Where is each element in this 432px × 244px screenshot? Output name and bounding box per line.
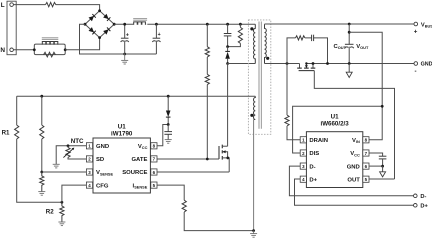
node vin tee [348, 31, 351, 34]
pin 3 VSENSE [86, 169, 113, 177]
vcc capacitor [164, 125, 172, 140]
wire sense resistor to ground rail [184, 212, 253, 231]
pin 4 D+ [300, 176, 317, 183]
pin 8 VCC [138, 143, 157, 151]
node cfg [61, 201, 64, 204]
auxiliary return wire to ground rail [253, 120, 255, 231]
input terminal block [7, 1, 16, 55]
svg-text:VBUS: VBUS [421, 22, 432, 28]
svg-text:L: L [1, 2, 5, 9]
bridge diode bottom-right [103, 27, 110, 34]
gnd wire pin6 [369, 165, 383, 167]
primary earth ground at pin1 [53, 164, 60, 168]
L1 core lines [133, 18, 147, 20]
pin 7 GATE [131, 156, 157, 163]
vsense lower resistor [40, 172, 44, 192]
filter inductor L1 [133, 22, 146, 24]
svg-text:SOURCE: SOURCE [122, 170, 147, 176]
svg-text:U1: U1 [118, 124, 126, 131]
node rail clamp cap [226, 23, 229, 26]
source wire pin6 [157, 171, 229, 173]
out wire pin5 [369, 178, 395, 180]
node gnd660 [381, 165, 384, 168]
node aux vsense divider [40, 95, 43, 98]
terminal GND [414, 62, 418, 66]
node rail C1 [123, 23, 126, 26]
sense resistor [182, 200, 186, 212]
U1 iW1790 box [93, 138, 150, 193]
svg-text:GND: GND [347, 164, 360, 170]
pin 8 VIN [352, 137, 369, 145]
secondary ground at cout [346, 64, 352, 78]
d+ wire pin4 [295, 179, 414, 205]
svg-text:D-: D- [309, 164, 315, 170]
snubber capacitor [305, 35, 328, 64]
gnd wire pin1 [56, 146, 86, 165]
resistor R2 [60, 202, 64, 222]
clamp resistor [238, 27, 242, 43]
svg-text:+: + [126, 33, 129, 39]
primary earth ground at R2 [58, 222, 65, 226]
node snubber right [326, 62, 329, 65]
node cout gnd [348, 62, 351, 65]
pin 4 CFG [86, 182, 108, 189]
primary MOSFET Q1 [219, 145, 229, 172]
svg-text:OUT: OUT [347, 177, 360, 183]
wire choke to bridge bottom [65, 38, 99, 50]
svg-text:+: + [414, 29, 418, 36]
primary earth ground at vcc cap [165, 140, 172, 144]
svg-text:R2: R2 [46, 209, 54, 216]
wire to vsense node [41, 139, 43, 172]
gate wire Q2 to OUT [314, 71, 394, 179]
drain sense resistor [286, 64, 288, 116]
dis wire pin2 to vin [293, 106, 383, 153]
wire vsense node to pin3 [42, 171, 87, 173]
svg-text:GND: GND [421, 62, 432, 68]
svg-text:SD: SD [96, 157, 104, 163]
svg-text:iW660/2/3: iW660/2/3 [320, 121, 349, 128]
cfg wire pin4 [62, 185, 87, 202]
cout leg [348, 24, 350, 64]
clamp capacitor [224, 24, 232, 46]
SR MOSFET Q2 [297, 62, 315, 71]
snubber resistor [287, 38, 296, 64]
svg-text:COUT: COUT [334, 44, 347, 50]
primary earth ground at C1 [121, 54, 128, 64]
wire primary bottom to drain [228, 64, 256, 147]
vbus rail [265, 23, 415, 25]
pin 2 SD [86, 156, 104, 163]
auxiliary winding [254, 96, 256, 119]
node neg rail C1 [123, 53, 126, 56]
vcc capacitor iW660 [379, 156, 387, 166]
transformer T1 dashed box [248, 20, 270, 134]
primary winding [254, 24, 256, 63]
vsense upper resistor [41, 96, 43, 125]
svg-text:U1: U1 [331, 114, 339, 121]
output gnd line [306, 63, 414, 65]
U1 iW660 box [306, 132, 362, 188]
svg-text:GATE: GATE [131, 157, 147, 163]
svg-text:N: N [0, 47, 5, 54]
node aux vcc diode [167, 95, 170, 98]
auxiliary supply line [17, 95, 256, 97]
svg-text:VCC: VCC [138, 144, 148, 150]
pin 5 OUT [347, 176, 369, 183]
pin 7 VCC [350, 150, 369, 158]
node rail clamp resistor [239, 23, 242, 26]
d- wire pin3 [289, 166, 413, 196]
gate wire pin7 to Q1 [157, 158, 219, 160]
switching node line [265, 63, 300, 65]
secondary ground at pin6 [380, 166, 386, 177]
svg-text:ISENSE: ISENSE [133, 183, 148, 189]
wire R1 to cfg node [17, 139, 62, 202]
bridge diode bottom-left [89, 27, 96, 34]
bridge diode top-right [103, 14, 110, 21]
svg-text:VCC: VCC [350, 151, 360, 157]
wire N to CM choke [13, 49, 34, 51]
pin 2 DIS [300, 150, 319, 157]
vin wire [349, 32, 382, 140]
bulk capacitor C1 [121, 24, 129, 54]
resistor R1 [15, 125, 19, 139]
node drain line [226, 62, 229, 65]
startup resistor RS1 [206, 24, 208, 47]
node rail C2 [155, 23, 158, 26]
R1 divider from aux [16, 96, 18, 125]
bridge diode top-left [89, 14, 96, 21]
pin 1 DRAIN [300, 137, 328, 144]
wire fuse to bridge top [56, 5, 100, 11]
common-mode choke / damping network box [34, 44, 65, 55]
pin 6 GND [347, 163, 369, 170]
node rail startup chain [206, 23, 209, 26]
primary earth ground at rail [250, 231, 257, 238]
node filter right [64, 48, 67, 51]
terminal D- [414, 194, 418, 198]
vcc wire pin7 [369, 153, 383, 156]
startup resistor RS2 [205, 74, 209, 84]
svg-text:VOUT: VOUT [356, 44, 369, 50]
vcc wire pin8 to diode node [157, 125, 168, 146]
node gate startup [206, 158, 209, 161]
node ntc top [67, 144, 70, 147]
secondary phase dot [266, 57, 269, 60]
primary earth ground at vsense divider [38, 192, 45, 196]
wire bridge negative wrap to gnd rail [80, 24, 157, 54]
damping resistor in box [44, 52, 56, 57]
pin 5 ISENSE [133, 182, 157, 190]
svg-text:+: + [158, 32, 161, 38]
svg-text:CFG: CFG [96, 183, 109, 189]
wire between startup resistors [206, 57, 208, 74]
output capacitor COUT [345, 44, 354, 48]
wire L to fuse [13, 4, 45, 6]
pin 6 SOURCE [122, 169, 157, 176]
node snubber left [286, 62, 289, 65]
clamp diode [225, 47, 230, 64]
vcc diode [166, 96, 171, 124]
wire startup chain to gate line [206, 85, 208, 159]
svg-text:-: - [415, 68, 417, 75]
svg-text:D+: D+ [309, 177, 317, 183]
secondary winding [265, 24, 267, 63]
terminal D+ [414, 204, 418, 208]
svg-text:VIN: VIN [352, 138, 360, 144]
svg-text:VSENSE: VSENSE [96, 170, 114, 176]
svg-text:iW1790: iW1790 [111, 131, 133, 138]
node ground rail [252, 229, 255, 232]
svg-text:R1: R1 [2, 129, 10, 136]
svg-text:DIS: DIS [309, 151, 319, 157]
DC+ rail from bridge to transformer [114, 23, 255, 25]
choke core lines [42, 38, 59, 40]
terminal VBUS [414, 22, 418, 26]
primary phase dot [250, 27, 253, 30]
bridge rectifier BR1 outline [85, 11, 114, 38]
transformer core [259, 22, 261, 129]
node dis vin [381, 105, 384, 108]
bulk capacitor C2 [152, 24, 160, 54]
choke winding [42, 42, 59, 45]
node vcc [167, 123, 170, 126]
node cout top [348, 23, 351, 26]
node vsense [40, 171, 43, 174]
svg-text:D+: D+ [420, 204, 428, 210]
fuse F1 [46, 2, 56, 6]
pin 1 GND [86, 143, 109, 150]
auxiliary phase dot [250, 114, 253, 117]
bridge corner dots [98, 9, 101, 12]
isense wire pin5 to sense resistor [157, 185, 184, 200]
pin 3 D- [300, 163, 315, 170]
NTC thermistor [63, 146, 86, 159]
svg-text:DRAIN: DRAIN [309, 138, 328, 144]
svg-text:GND: GND [96, 144, 109, 150]
svg-text:D-: D- [420, 194, 426, 200]
svg-text:NTC: NTC [71, 138, 84, 145]
node clamp [226, 45, 229, 48]
node filter left [33, 48, 36, 51]
